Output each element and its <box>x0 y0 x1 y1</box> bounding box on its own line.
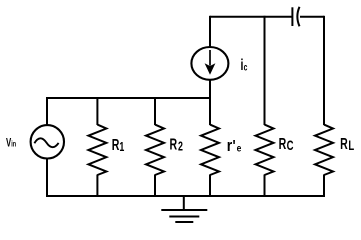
resistor R1 <box>88 125 106 175</box>
wire: R_L vertical drop from top rail <box>323 16 325 125</box>
resistor r'e <box>201 125 219 175</box>
resistor R_L <box>315 125 333 175</box>
wire: bottom rail <box>47 195 324 197</box>
svg-text:r'e: r'e <box>227 137 242 155</box>
wire: top rail right segment (capacitor to R_L corner) <box>300 16 324 18</box>
ground <box>161 210 207 222</box>
wire: R2 top lead <box>154 97 156 125</box>
wire: R1 bottom lead <box>96 175 98 198</box>
wire: R_L bottom lead <box>323 175 325 198</box>
svg-text:RC: RC <box>279 135 294 153</box>
wire: r'e top lead <box>209 97 211 125</box>
wire: V_in top lead <box>46 97 48 125</box>
wire: R1 top lead <box>96 97 98 125</box>
current source i_c <box>191 47 228 80</box>
wire: current source top lead <box>209 16 211 47</box>
resistor R2 <box>146 125 164 175</box>
resistor R_C <box>256 125 274 175</box>
wire: r'e bottom lead <box>209 175 211 198</box>
svg-text:RL: RL <box>340 135 354 153</box>
svg-text:Vin: Vin <box>6 137 16 150</box>
wire: top rail left segment (current source to capacitor) <box>210 16 292 18</box>
svg-text:ic: ic <box>241 56 248 74</box>
wire: main rail (V_in top to r'e top) <box>47 97 210 99</box>
svg-text:R1: R1 <box>112 136 125 155</box>
wire: V_in bottom lead <box>46 159 48 197</box>
wire: current source bottom lead <box>209 80 211 99</box>
wire: R_C vertical (top rail down to resistor) <box>264 16 266 125</box>
capacitor (coupling, top rail) <box>292 7 299 27</box>
wire: R_C bottom lead <box>264 175 266 198</box>
wire: R2 bottom lead <box>154 175 156 198</box>
svg-text:R2: R2 <box>170 136 183 155</box>
ac source V_in <box>31 125 64 158</box>
wire: ground stem <box>183 196 185 210</box>
